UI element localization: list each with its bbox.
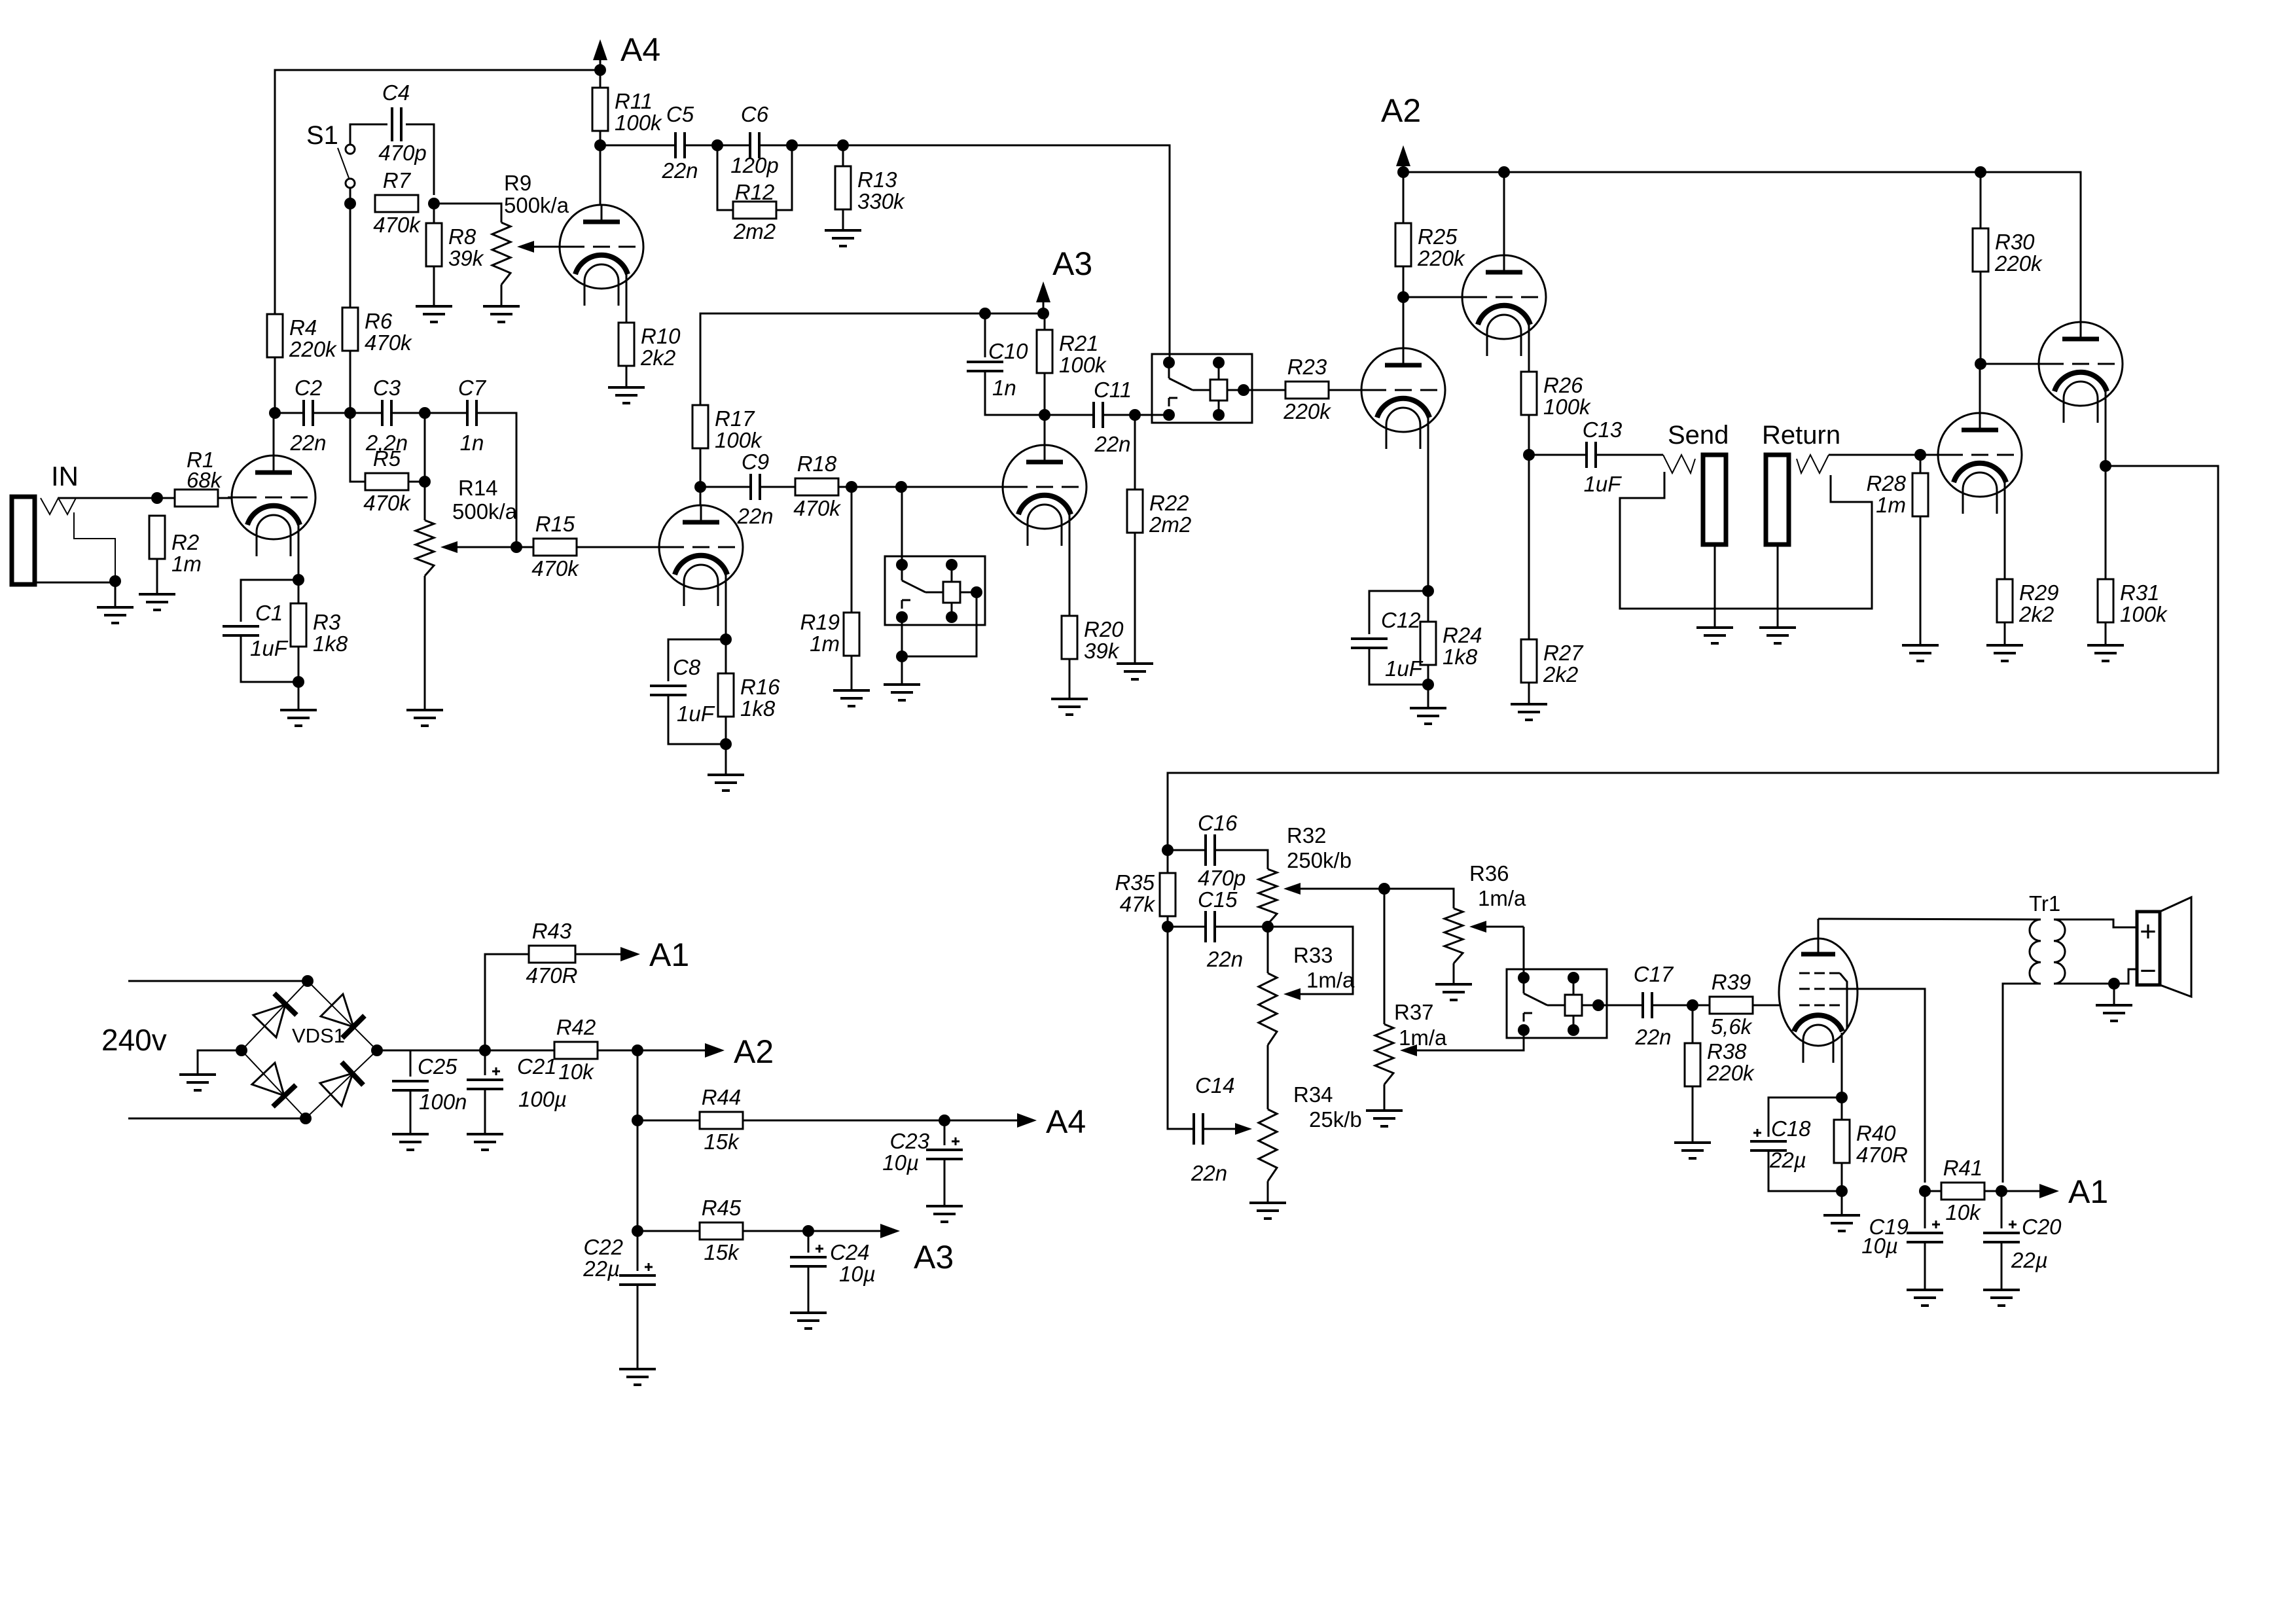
potentiometer R34 25k/b (1203, 1109, 1277, 1181)
capacitor C7 (458, 376, 487, 455)
wire R14 top (424, 413, 426, 520)
wire R13 top (842, 145, 844, 166)
value R1 68k (187, 468, 223, 492)
svg-text:C5: C5 (666, 102, 694, 126)
wire C19 to ground (1924, 1242, 1926, 1290)
svg-text:R36: R36 (1469, 861, 1509, 885)
node R13 top (837, 139, 849, 151)
svg-text:22n: 22n (1634, 1025, 1671, 1049)
net A2 arrow (1381, 92, 1421, 172)
capacitor C4 (378, 80, 426, 165)
capacitor C12 (1351, 639, 1388, 648)
resistor R4 (267, 314, 337, 361)
wire R8 to ground (433, 266, 435, 306)
wire R21 top (1044, 313, 1046, 330)
wire V3 cathode (725, 575, 727, 673)
svg-text:R25: R25 (1418, 224, 1458, 249)
capacitor C16 (1198, 811, 1246, 890)
node A2/V6 plate (1498, 166, 1510, 178)
node R14 wiper/R15 (511, 541, 522, 553)
resistor R38 (1685, 1039, 1755, 1086)
svg-text:Return: Return (1762, 421, 1840, 450)
label C23 (889, 1129, 929, 1153)
node R7 right (428, 198, 440, 209)
capacitor C22 (619, 1263, 656, 1285)
potentiometer R32 250k/b (1259, 869, 1384, 924)
svg-text:C6: C6 (741, 102, 769, 126)
transformer Tr1 secondary (2054, 919, 2065, 984)
wire C16 left (1168, 849, 1206, 851)
ground C25 (392, 1134, 429, 1150)
resistor R11 (592, 88, 662, 135)
svg-text:15k: 15k (704, 1240, 740, 1264)
node R17/C9/V3 plate (694, 481, 706, 493)
wire R34 to ground (1267, 1181, 1269, 1203)
label 240v (101, 1023, 167, 1057)
wire C20 top (2001, 1191, 2003, 1228)
node V8 cathode/R31 (2100, 460, 2111, 472)
value R9 500k/a (504, 193, 569, 217)
svg-text:C25: C25 (418, 1054, 457, 1079)
wire R40 to ground (1841, 1163, 1843, 1215)
resistor R28 (1912, 473, 1928, 516)
wire C14 to R34 wiper (1203, 1128, 1208, 1130)
svg-text:1uF: 1uF (677, 702, 715, 726)
wire R6 to C2 row (350, 351, 351, 413)
ground C24 (790, 1313, 827, 1329)
svg-text:220k: 220k (289, 337, 337, 361)
node R18/R19 (846, 481, 857, 493)
svg-text:22n: 22n (289, 431, 326, 455)
svg-text:C3: C3 (373, 376, 401, 400)
svg-text:2k2: 2k2 (1543, 662, 1578, 687)
svg-text:C17: C17 (1634, 962, 1674, 986)
wire V1 plate lead (273, 413, 275, 455)
wire V9 cathode (1841, 1033, 1843, 1097)
svg-text:250k/b: 250k/b (1287, 848, 1352, 872)
wire R42 right (598, 1050, 637, 1052)
ground R40/C18 (1823, 1215, 1860, 1231)
svg-text:100k: 100k (1059, 353, 1107, 377)
wire R14 wiper to R15 (516, 546, 533, 548)
return jack tip contact (1797, 455, 1829, 473)
svg-text:1m: 1m (810, 632, 840, 656)
capacitor C20 (1983, 1221, 2020, 1242)
wire C2 row a (275, 412, 303, 414)
svg-text:220k: 220k (1283, 399, 1331, 423)
svg-text:R19: R19 (800, 610, 840, 634)
value R28 1m (1876, 493, 1906, 517)
triode V5 (1357, 348, 1445, 449)
svg-text:Send: Send (1668, 421, 1729, 450)
wire C23 to ground (944, 1159, 946, 1206)
resistor R2 (149, 516, 202, 576)
node C11/R22 (1129, 409, 1141, 421)
wire R36 to ground (1453, 963, 1455, 984)
wire R32 wiper node (1384, 889, 1454, 908)
svg-text:R45: R45 (702, 1196, 742, 1220)
wire jack sleeve (35, 582, 115, 584)
svg-text:R38: R38 (1707, 1039, 1747, 1063)
transformer Tr1 primary (2030, 919, 2041, 984)
wire R44 right (743, 1120, 944, 1122)
label Tr1 (2029, 891, 2060, 916)
wire speaker ground stub (2113, 984, 2115, 1005)
wire R19 to ground (851, 656, 853, 690)
ground R2 (139, 594, 175, 610)
node Return/R28/V7 grid (1914, 449, 1926, 461)
ground jack sleeve (97, 581, 134, 623)
node A3/R21 (1037, 308, 1049, 319)
net A2 arrow (supply) (637, 1033, 774, 1070)
resistor R7 (373, 168, 421, 237)
svg-text:R26: R26 (1543, 373, 1583, 397)
svg-text:C9: C9 (742, 450, 769, 474)
capacitor C5 (661, 102, 698, 183)
label C19 (1869, 1215, 1909, 1239)
svg-text:330k: 330k (857, 189, 905, 213)
net A3 arrow (1036, 245, 1092, 313)
svg-text:R13: R13 (857, 168, 897, 192)
value C25 100n (419, 1090, 467, 1114)
ground R38 (1674, 1143, 1711, 1158)
value R36 1m/a (1478, 886, 1526, 910)
node R24 bottom (1422, 679, 1434, 690)
svg-text:470p: 470p (378, 141, 426, 165)
wire A3 rail (700, 313, 1043, 405)
node A3/C10 (979, 308, 991, 319)
wire C3 node down to R5 (350, 413, 365, 482)
ground R8 (416, 306, 452, 322)
svg-text:1m: 1m (1876, 493, 1906, 517)
label R37 (1394, 1000, 1434, 1024)
svg-text:100n: 100n (419, 1090, 467, 1114)
wire A2 rail (1403, 172, 2081, 339)
wire R43 branch (485, 954, 529, 1050)
svg-text:R24: R24 (1443, 623, 1482, 647)
wire RL1 right-mid to ground (902, 592, 977, 656)
wire R26 to C13 node (1528, 415, 1530, 455)
wire R35 bottom (1167, 916, 1169, 927)
node R7 left/S1 (344, 198, 356, 209)
ground R19 (833, 690, 870, 706)
ground C21 (467, 1134, 503, 1150)
wire R12 loop left (717, 145, 733, 210)
ground R24/C12 (1410, 708, 1446, 724)
wire R11 top (600, 70, 601, 88)
wire R4 to C2 row (274, 357, 276, 413)
wire V2 plate lead (600, 145, 601, 205)
svg-text:A1: A1 (2068, 1173, 2108, 1210)
svg-text:R22: R22 (1149, 491, 1189, 515)
value R14 500k/a (452, 499, 518, 524)
wire C25 stub (410, 1050, 412, 1077)
wire IN tip to R1 (58, 497, 175, 499)
wire C9 left (700, 486, 751, 488)
wire R10 to ground (626, 366, 628, 387)
svg-text:C16: C16 (1198, 811, 1238, 835)
wire C9 to R18 (760, 486, 795, 488)
resistor R10 (619, 323, 681, 370)
wire top rail to relay RL2 (843, 145, 1170, 362)
svg-text:C4: C4 (382, 80, 410, 105)
label C1 (255, 601, 283, 625)
label C24 (830, 1240, 870, 1264)
label R12 (735, 180, 775, 204)
svg-text:R21: R21 (1059, 331, 1099, 355)
capacitor C18 (1750, 1129, 1787, 1150)
potentiometer R9 500k/a (492, 223, 558, 285)
node R32 wiper/R36/R37 (1378, 883, 1390, 895)
wire C1 loop bottom (241, 635, 298, 682)
resistor R35 (1160, 873, 1175, 916)
svg-text:500k/a: 500k/a (452, 499, 518, 524)
svg-text:R10: R10 (641, 324, 681, 348)
wire R30 top (1980, 172, 1982, 228)
label R19 (800, 610, 840, 634)
ground return jack (1759, 628, 1796, 643)
triode V6 (cathode follower) (1458, 255, 1546, 356)
resistor R8 (426, 223, 484, 270)
ground R20 (1051, 699, 1088, 715)
svg-text:15k: 15k (704, 1130, 740, 1154)
svg-text:S1: S1 (306, 121, 338, 150)
send jack tip contact (1663, 455, 1695, 473)
potentiometer R14 500k/a (416, 520, 516, 576)
wire R11 to V2 plate node (600, 131, 601, 145)
svg-text:2m2: 2m2 (1149, 512, 1191, 537)
wire C19 top (1924, 1191, 1926, 1228)
capacitor C17 (1634, 962, 1674, 1049)
svg-text:R28: R28 (1866, 471, 1906, 495)
wire C25 to ground (410, 1090, 412, 1134)
value R19 1m (810, 632, 840, 656)
svg-text:R41: R41 (1943, 1156, 1983, 1180)
wire C10 bottom (985, 371, 1045, 415)
wire C6 to R13 (759, 145, 843, 147)
value R37 1m/a (1399, 1026, 1447, 1050)
capacitor C24 (790, 1245, 827, 1266)
svg-text:10k: 10k (1945, 1200, 1981, 1224)
input jack J1 (12, 497, 35, 584)
svg-text:22n: 22n (1191, 1161, 1227, 1185)
svg-text:39k: 39k (448, 246, 484, 270)
svg-text:A4: A4 (620, 31, 660, 68)
wire C5 to C6 (685, 145, 750, 147)
wire RL1 BL to ground (901, 617, 903, 685)
node C2/C3/R6 (344, 407, 356, 419)
ground R13 (825, 230, 861, 246)
svg-text:C14: C14 (1195, 1073, 1235, 1097)
resistor R21 (1037, 330, 1107, 377)
value C21 100u (518, 1087, 567, 1111)
svg-text:R31: R31 (2120, 580, 2160, 605)
capacitor C14 (1191, 1073, 1235, 1185)
svg-text:R23: R23 (1287, 355, 1327, 379)
svg-text:100k: 100k (715, 428, 762, 452)
value C24 10u (839, 1262, 876, 1286)
ground C19 (1907, 1290, 1943, 1306)
node C16/R35 top (1162, 844, 1174, 856)
label IN (51, 461, 79, 491)
wire V5 plate lead (1403, 297, 1405, 365)
return jack J3 (1766, 455, 1789, 544)
wire V6 grid (1403, 296, 1462, 298)
node R3 bottom (293, 676, 304, 688)
ground C23 (926, 1206, 963, 1222)
resistor R26 (1521, 372, 1591, 419)
net A1 arrow (output) (2001, 1173, 2108, 1210)
label C25 (418, 1054, 457, 1079)
ground RL1 (884, 685, 920, 700)
svg-text:R12: R12 (735, 180, 775, 204)
wire R28 to ground (1920, 516, 1922, 645)
wire R40 top (1841, 1097, 1843, 1120)
resistor R29 (1997, 579, 2059, 626)
ground C20 (1983, 1290, 2020, 1306)
capacitor C3 (365, 376, 408, 455)
svg-text:470k: 470k (363, 491, 411, 515)
node C3/C7/R5 (419, 407, 431, 419)
svg-text:220k: 220k (1706, 1061, 1755, 1085)
triode V2 (bright stage) (556, 205, 643, 306)
wire C18 loop bottom (1768, 1150, 1842, 1191)
node A2 supply (632, 1044, 643, 1056)
net A4 arrow (593, 31, 660, 70)
svg-text:1k8: 1k8 (1443, 645, 1478, 669)
svg-text:+: + (2140, 916, 2157, 948)
resistor R30 (1973, 228, 2043, 276)
wire C4 to R7 right (406, 124, 434, 195)
wire C10 top (984, 313, 986, 357)
value R35 47k (1120, 892, 1156, 916)
label R33 (1293, 943, 1333, 967)
wire C15 to R33 wiper (1215, 927, 1353, 994)
ground R9 (483, 306, 520, 322)
node C21/R43 (479, 1044, 491, 1056)
wire R38 top (1692, 1005, 1694, 1043)
node V2 plate (594, 139, 606, 151)
wire V9 plate to Tr1 (1818, 919, 2041, 919)
wire R36 wiper to RL3 (1523, 927, 1525, 978)
svg-text:R5: R5 (373, 446, 401, 471)
wire R39 to V9 g1 (1753, 1005, 1780, 1007)
wire AC neutral (128, 1118, 306, 1120)
svg-text:A3: A3 (914, 1239, 954, 1275)
wire C11 left (1045, 414, 1094, 416)
svg-text:R20: R20 (1084, 617, 1124, 641)
wire S1 to R6 (350, 204, 351, 308)
value C8 1uF (677, 702, 715, 726)
svg-text:R40: R40 (1856, 1121, 1896, 1145)
wire V7 cathode to R29 (2004, 482, 2006, 579)
svg-text:R2: R2 (171, 530, 199, 554)
label C20 (2022, 1215, 2062, 1239)
wire R31 to ground (2105, 622, 2107, 645)
wire supply ladder (637, 1050, 639, 1271)
node R41/C20/A1 (1996, 1185, 2007, 1197)
svg-text:10µ: 10µ (882, 1150, 919, 1175)
value C20 22u (2011, 1248, 2048, 1272)
wire R7 right to R9 (434, 204, 501, 223)
triode V4 (999, 445, 1086, 546)
resistor R43 (526, 919, 578, 988)
label C10 (988, 339, 1028, 363)
label R36 (1469, 861, 1509, 885)
wire RL3 BL to R37 wiper (1436, 1030, 1524, 1050)
wire S1 top to C4 (350, 124, 387, 145)
ground send jack (1696, 628, 1733, 643)
capacitor C8 (650, 686, 687, 695)
svg-text:A2: A2 (1381, 92, 1421, 129)
svg-text:C10: C10 (988, 339, 1028, 363)
wire R44 left (637, 1120, 700, 1122)
svg-text:C2: C2 (295, 376, 322, 400)
wire R1 to V1 grid (218, 497, 232, 499)
wire R37 top (1384, 889, 1386, 1024)
wire R23 to V5 grid (1329, 389, 1361, 391)
wire R16 to ground (725, 717, 727, 775)
label C21 (517, 1054, 557, 1079)
wire C24 stub (808, 1231, 810, 1253)
value R33 1m/a (1306, 968, 1355, 992)
svg-text:470k: 470k (531, 556, 579, 580)
ground R37 (1366, 1111, 1403, 1126)
wire V2 cathode to R10 (626, 274, 628, 323)
value R32 250k/b (1287, 848, 1352, 872)
node R32 bottom/C15 (1262, 921, 1274, 933)
ground R22 (1117, 664, 1153, 679)
svg-text:220k: 220k (1417, 246, 1465, 270)
node R40 bottom (1836, 1185, 1848, 1197)
wire R20 to ground (1069, 659, 1071, 699)
svg-text:470R: 470R (526, 963, 578, 988)
resistor R1 (175, 490, 218, 507)
wire C21 stub (484, 1050, 486, 1075)
svg-text:C22: C22 (583, 1235, 623, 1259)
svg-text:R6: R6 (365, 309, 393, 333)
node R25/V5 plate/V6 grid (1397, 291, 1409, 303)
svg-text:240v: 240v (101, 1023, 167, 1057)
relay RL3 (tone bypass) (1507, 969, 1607, 1038)
wire R13 to ground (842, 209, 844, 230)
wire V4 plate lead (1044, 415, 1046, 462)
resistor R40 (1834, 1120, 1908, 1167)
svg-text:22n: 22n (1206, 947, 1243, 971)
resistor R27 (1521, 639, 1584, 687)
node V5 cathode (1422, 585, 1434, 597)
wire feedback to tone stack (1168, 466, 2218, 850)
resistor R45 (700, 1196, 743, 1264)
resistor R39 (1710, 970, 1753, 1039)
node RL1 ground junction (896, 651, 908, 662)
wire Tr1 secondary top to speaker (2054, 919, 2137, 927)
wire C8 loop bottom (668, 695, 726, 744)
svg-text:1m/a: 1m/a (1399, 1026, 1447, 1050)
wire R29 to ground (2004, 622, 2006, 645)
wire RL2 out to R23 (1244, 389, 1285, 391)
svg-text:A4: A4 (1046, 1103, 1086, 1140)
node R18/relay RL1 (895, 481, 907, 493)
node C6/R12 right (786, 139, 798, 151)
wire Return to V7 grid (1829, 454, 1938, 456)
capacitor C2 (289, 376, 326, 455)
capacitor C21 (467, 1067, 503, 1089)
svg-text:22n: 22n (736, 504, 773, 528)
svg-text:470k: 470k (373, 213, 421, 237)
wire V9 g2 to A1 node (1840, 989, 1925, 1183)
wire R15 to V3 grid (577, 546, 659, 548)
